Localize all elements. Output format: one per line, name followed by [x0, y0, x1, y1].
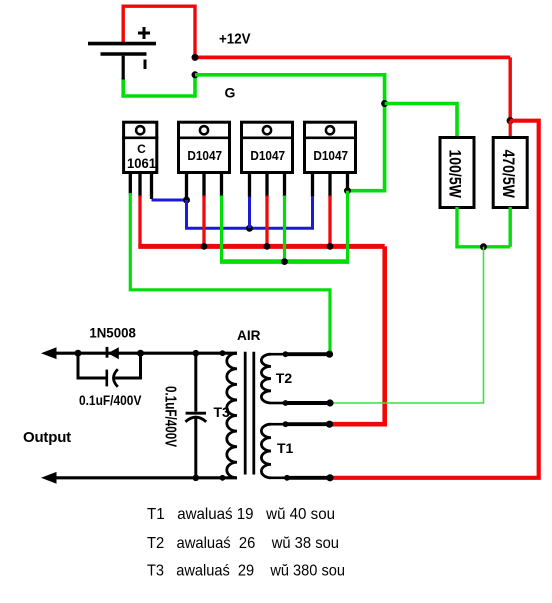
- diode D1 1N5008: [107, 347, 119, 359]
- node: emitter bus junction Q3: [281, 258, 288, 265]
- svg-text:D1047: D1047: [313, 148, 348, 163]
- wire: Q3 emitter drop (green): [283, 196, 286, 262]
- svg-text:T3: T3: [214, 404, 231, 420]
- node: T1 bottom terminal: [326, 474, 333, 481]
- node: bus junction Q4 collector: [327, 243, 334, 250]
- wire: G branch to R1 100/5W top: [385, 104, 457, 139]
- wire: output bottom line: [56, 476, 237, 479]
- node: top line left junction: [75, 350, 82, 357]
- node: T3 top lead dot: [220, 350, 226, 356]
- node: Q4 emitter to G jog: [344, 187, 351, 194]
- node: resistor bottom junction: [480, 243, 487, 250]
- wire: battery negative loop (green): [123, 75, 195, 96]
- node: T3 bottom lead dot: [220, 475, 226, 481]
- svg-text:T3 awaluaś 29 wŭ 380 sou: T3 awaluaś 29 wŭ 380 sou: [147, 563, 345, 580]
- svg-text:T2: T2: [276, 370, 293, 386]
- node: T2 top terminal: [326, 351, 333, 358]
- transistor Q3 D1047: [240, 122, 294, 197]
- wire: Q1 emitter to T2 top (green): [130, 193, 330, 354]
- wire: Q2 emitter drop (green): [220, 196, 223, 262]
- wire: Q3 collector drop (red): [265, 196, 268, 247]
- transformer T3 primary winding: [227, 353, 237, 478]
- node: +12V junction above R2: [507, 117, 514, 124]
- svg-text:T2 awaluaś 26 wŭ 38 sou: T2 awaluaś 26 wŭ 38 sou: [147, 535, 339, 552]
- wire: Q4 collector drop (red): [328, 196, 331, 247]
- svg-text:+12V: +12V: [219, 30, 251, 47]
- node: top line right junction: [137, 350, 144, 357]
- transformer core: [245, 352, 254, 475]
- node: T2 bottom winding dot: [283, 400, 289, 406]
- node: T1 top winding dot: [283, 421, 289, 427]
- resistor R1 100/5W: [440, 138, 474, 208]
- wire: +12V rail: [195, 56, 510, 60]
- node: T2 top winding dot: [283, 351, 289, 357]
- node: T1 bottom winding dot: [284, 475, 290, 481]
- svg-text:1N5008: 1N5008: [89, 326, 136, 341]
- node: blue junction at Q3 base drop: [246, 225, 253, 232]
- wire: collector bus (red): [138, 244, 384, 249]
- node: bus junction Q2 collector: [201, 243, 208, 250]
- capacitor C2 0.1uF/400V vertical: [185, 353, 206, 478]
- wire: battery positive loop (red): [123, 6, 195, 57]
- transformer T1 winding: [261, 424, 331, 478]
- svg-text:1061: 1061: [127, 156, 156, 171]
- svg-text:470/5W: 470/5W: [499, 150, 518, 199]
- node: C2 bottom junction: [193, 475, 200, 482]
- svg-text:Output: Output: [23, 429, 71, 446]
- wire: G rail to right and down to Q4 emitter: [195, 75, 385, 191]
- transistor Q4 D1047: [303, 122, 357, 197]
- node: blue junction at Q2 base: [183, 197, 190, 204]
- svg-text:G: G: [225, 85, 236, 101]
- svg-text:D1047: D1047: [250, 148, 285, 163]
- node: G branch to R1: [381, 100, 388, 107]
- wire: R2 bottom (green): [509, 207, 512, 247]
- node: T2 bottom terminal: [326, 399, 333, 406]
- svg-text:0.1uF/400V: 0.1uF/400V: [161, 386, 178, 447]
- svg-text:100/5W: 100/5W: [446, 149, 465, 198]
- wire: Q3 base drop (blue): [248, 197, 251, 229]
- wire: +12V down right side: [509, 57, 512, 120]
- wire: blue base bus: [187, 196, 313, 228]
- wire: Q1 base to Q2 base (blue): [152, 199, 187, 202]
- svg-text:C: C: [137, 142, 146, 156]
- wire: emitter bus (green): [220, 259, 349, 264]
- wire: snubber loop left: [78, 353, 106, 378]
- wire: Q2 collector drop (red): [202, 196, 205, 247]
- wire: +12V to T1 bottom terminal: [331, 121, 539, 478]
- capacitor C1 0.1uF/400V: [107, 369, 118, 387]
- wire: Q4 emitter drop (green): [346, 191, 349, 262]
- resistor R2 470/5W: [493, 138, 527, 208]
- node: +12V junction at battery: [192, 54, 199, 61]
- node: C2 top junction: [193, 350, 200, 357]
- svg-text:T1 awaluaś 19 wŭ 40 sou: T1 awaluaś 19 wŭ 40 sou: [147, 506, 335, 523]
- svg-text:D1047: D1047: [187, 148, 222, 163]
- wire: R1 bottom (green): [457, 207, 510, 247]
- wire: thin green to T2 bottom: [331, 247, 484, 403]
- wire: Q1 collector drop (red): [138, 196, 141, 247]
- svg-text:AIR: AIR: [237, 327, 261, 343]
- wire: snubber loop right: [115, 353, 141, 378]
- output arrow bottom: [41, 472, 57, 484]
- wire: junction to R2 470/5W top: [509, 121, 512, 138]
- wire: collector bus down to T1 top: [331, 246, 385, 424]
- transistor Q2 D1047: [177, 122, 231, 199]
- wire: output top line: [55, 352, 237, 355]
- node: G junction at battery: [192, 71, 199, 78]
- svg-text:0.1uF/400V: 0.1uF/400V: [79, 392, 142, 408]
- battery B1: [88, 27, 156, 80]
- output arrow top: [41, 347, 57, 359]
- node: T1 top terminal: [326, 421, 333, 428]
- transistor Q1 C1061: [122, 122, 158, 199]
- transformer T2 winding: [261, 354, 331, 403]
- node: bus junction Q3 collector: [264, 243, 271, 250]
- svg-text:T1: T1: [277, 440, 294, 456]
